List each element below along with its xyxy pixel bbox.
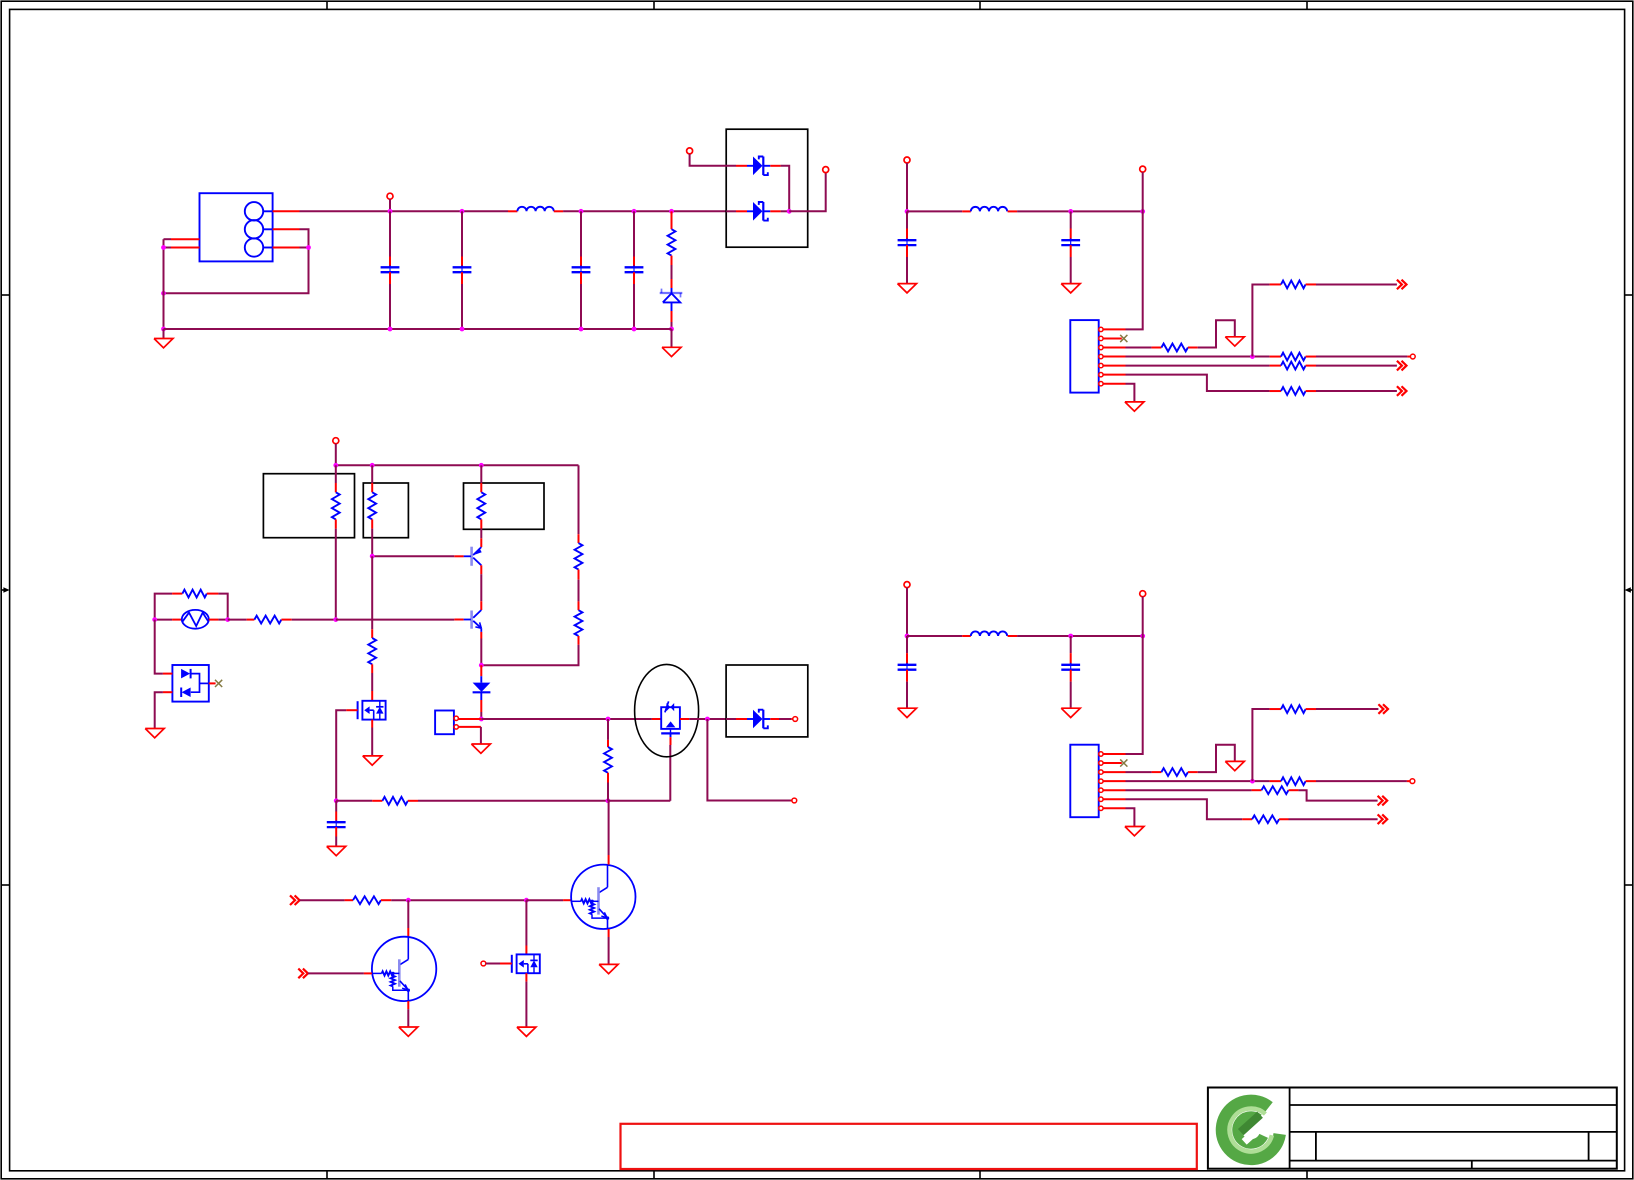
wire: [526, 899, 563, 901]
capacitor C1: [389, 211, 391, 256]
resistor R4 (in K3): [480, 465, 482, 483]
mosfet Q3: [371, 556, 373, 629]
wire Q6 emitter to ground: [608, 929, 610, 937]
junction: [1250, 354, 1255, 359]
no-connect: [209, 682, 216, 684]
wire to ground: [155, 692, 163, 728]
junction: [1250, 779, 1255, 784]
wire main rail: [390, 210, 508, 212]
port VIN-A: [687, 148, 693, 154]
riser wire + resistor to port: [1252, 284, 1269, 356]
connector J2 (8-pin header): [1070, 745, 1098, 818]
junction: [669, 327, 674, 332]
wire: [689, 718, 726, 720]
transistor Q6 (digital NPN): [571, 865, 635, 929]
wire + resistor R9: [300, 899, 345, 901]
transistor Q1 (PNP): [480, 538, 482, 547]
ground: [327, 846, 346, 855]
ground: [1061, 708, 1080, 717]
resistor R3 (in K2): [371, 465, 373, 483]
port AC-L: [387, 193, 393, 199]
junction: [306, 245, 311, 250]
CN1 pin1 wire: [273, 210, 300, 212]
ground: [1061, 284, 1080, 293]
connector J1 (8-pin header): [1070, 320, 1098, 393]
port P2: [1140, 166, 1146, 172]
junction: [669, 209, 674, 214]
resistor R6: [228, 619, 247, 621]
capacitor: [906, 211, 908, 228]
junction: [370, 554, 375, 559]
junction: [161, 291, 166, 296]
port VCC: [333, 438, 339, 444]
port chevron: [1378, 796, 1383, 806]
resistor R7 row: [336, 800, 372, 802]
junction: [1068, 209, 1073, 214]
wire to Q2 base: [336, 619, 455, 621]
ground: [363, 756, 382, 765]
wire: [308, 972, 364, 974]
CN1 left pins: [171, 238, 200, 240]
diode D2 (LED): [480, 665, 482, 676]
ground: [1225, 761, 1244, 770]
ground: [163, 329, 165, 339]
junction: [333, 617, 338, 622]
ground: [599, 964, 618, 973]
surge arrester / lamp: [155, 619, 172, 621]
pin6 wire + resistor: [1103, 798, 1125, 800]
capacitor: [906, 636, 908, 653]
ground: [1225, 337, 1244, 346]
junction: [632, 327, 637, 332]
port P1: [904, 157, 910, 163]
CN2 pin1 wire: [458, 718, 481, 720]
pin7 wire to ground: [1103, 807, 1125, 809]
wire Q5 emitter to ground: [407, 1001, 409, 1009]
capacitor C3: [580, 211, 582, 256]
transistor Q2 (NPN): [470, 611, 473, 629]
pin5 wire + resistor: [1103, 789, 1125, 791]
port VOUT-A: [823, 167, 829, 173]
junction: [705, 717, 710, 722]
logo: [1222, 1101, 1280, 1159]
capacitor: [1070, 211, 1072, 228]
port: [1410, 779, 1415, 784]
ground: [517, 1027, 536, 1036]
pin3 wire + resistor: [1103, 771, 1125, 773]
port chevron: [1378, 704, 1383, 714]
wire to port row: [707, 719, 790, 801]
transistor Q5 (digital NPN): [372, 937, 436, 1001]
capacitor: [1070, 636, 1072, 653]
port chevron IN1: [290, 895, 295, 905]
pin6 wire + resistor: [1103, 374, 1125, 376]
junction: [334, 798, 339, 803]
junction: [524, 898, 529, 903]
ground: [671, 329, 673, 347]
junction: [388, 327, 393, 332]
diode D3A (schottky): [726, 718, 736, 720]
junction: [479, 717, 484, 722]
junction: [460, 209, 465, 214]
ground: [1125, 402, 1144, 411]
relay K2 box: [363, 483, 408, 538]
wire to output port: [789, 173, 826, 212]
diode D1A: [736, 165, 747, 167]
pin1 wire: [1103, 328, 1125, 330]
junction: [905, 209, 910, 214]
inductor L1: [517, 207, 553, 212]
junction: [606, 717, 611, 722]
ground: [898, 284, 917, 293]
junction: [579, 327, 584, 332]
port: [1410, 354, 1415, 359]
junction: [388, 209, 393, 214]
power bus: [336, 464, 579, 466]
relay K1 box: [263, 474, 354, 538]
pin2 no-connect: [1103, 337, 1122, 339]
connector CN1 (3-pin power inlet): [200, 193, 273, 261]
wire Q5 collector: [407, 900, 409, 928]
junction: [1068, 634, 1073, 639]
zener D5: [671, 279, 673, 288]
wire: [1126, 211, 1143, 329]
junction: [406, 898, 411, 903]
riser wire + resistor to port: [1252, 709, 1269, 781]
resistor R1: [671, 211, 673, 229]
diode pack D1 (dual schottky): [726, 129, 808, 247]
junction: [333, 463, 338, 468]
junction: [606, 798, 611, 803]
capacitor C9: [335, 801, 337, 812]
port: [791, 800, 792, 802]
connector CN2 (2-pin): [435, 711, 454, 735]
resistor R8: [607, 719, 609, 740]
wire: [907, 635, 962, 637]
CN1 pin2 wire: [273, 228, 300, 230]
resistor chain right: [578, 465, 580, 534]
port P4: [1140, 591, 1146, 597]
junction: [225, 617, 230, 622]
triac Q4 in circle: [635, 664, 699, 756]
CN1 pin3 wire: [273, 247, 300, 249]
resistor R2 (in K1): [335, 465, 337, 483]
junction: [370, 463, 375, 468]
port P3: [904, 582, 910, 588]
title block: [1208, 1088, 1617, 1169]
junction: [479, 463, 484, 468]
pin5 wire + resistor: [1103, 365, 1125, 367]
ground: [145, 729, 164, 738]
wire bottom rail: [164, 328, 672, 330]
junction: [632, 209, 637, 214]
junction: [787, 209, 792, 214]
pin2 no-connect: [1103, 762, 1122, 764]
note box: [621, 1124, 1197, 1169]
pin4 wire + resistor to port: [1103, 356, 1125, 358]
wire Q6 collector: [608, 855, 610, 865]
junction: [161, 327, 166, 332]
wire: [907, 210, 962, 212]
capacitor C4: [633, 211, 635, 256]
relay K3 box: [464, 483, 545, 529]
pin3 wire + resistor: [1103, 347, 1125, 349]
port chevron: [1397, 386, 1402, 396]
dual diode D4: [155, 620, 163, 674]
wire row 719: [481, 718, 652, 720]
ground: [471, 744, 490, 753]
wire left vertical: [163, 239, 165, 329]
pin1 wire: [1103, 753, 1125, 755]
diode D1B: [726, 210, 736, 212]
thermistor loop resistor R5: [155, 594, 172, 620]
port chevron IN2: [298, 969, 303, 979]
ground: [898, 708, 917, 717]
wire: [1126, 636, 1143, 754]
junction: [1140, 209, 1145, 214]
ground: [399, 1027, 418, 1036]
mosfet Q7: [525, 900, 527, 945]
inductor L2: [971, 207, 1007, 212]
inductor L3: [971, 631, 1007, 636]
junction: [479, 663, 484, 668]
port: [481, 961, 486, 966]
junction: [460, 327, 465, 332]
capacitor C2: [461, 211, 463, 256]
CN2 pin2 wire to ground: [458, 726, 481, 728]
ground: [1125, 827, 1144, 836]
port chevron: [1397, 361, 1402, 371]
junction: [579, 209, 584, 214]
pin4 wire + resistor to port: [1103, 780, 1125, 782]
wire Q1-Q2: [480, 565, 482, 574]
pin7 wire to ground: [1103, 383, 1125, 385]
junction: [905, 634, 910, 639]
junction: [1140, 634, 1145, 639]
wire Q2 emitter: [480, 628, 482, 632]
wire: [781, 166, 790, 212]
wire Q1 base: [372, 555, 454, 557]
wire Q7 source to ground: [525, 973, 527, 981]
wire row to mosfet source: [608, 800, 670, 802]
port chevron: [1378, 814, 1383, 824]
port: [779, 718, 791, 720]
junction: [152, 617, 157, 622]
junction: [161, 245, 166, 250]
port chevron: [1397, 280, 1402, 290]
diode pack D3 box: [726, 665, 808, 737]
